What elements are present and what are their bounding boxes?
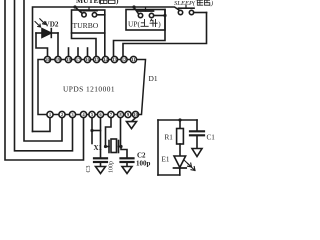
svg-text:100p: 100p — [136, 160, 151, 168]
capacitor C3 — [94, 158, 107, 166]
photodiode VD2 — [35, 19, 58, 38]
pin 16 — [84, 56, 90, 62]
label SLEEP(睡眠) — [174, 0, 213, 7]
svg-text:11: 11 — [131, 57, 136, 62]
svg-text:100p: 100p — [109, 161, 115, 173]
label UP(上升) — [128, 19, 161, 28]
pin 12 — [121, 56, 127, 62]
svg-text:14: 14 — [103, 57, 108, 62]
pin 5 — [89, 111, 95, 117]
wire: output box bottom edge — [158, 174, 180, 176]
svg-text:SLEEP(: SLEEP( — [174, 0, 196, 7]
wire: pin5 branch to C3 column — [92, 130, 101, 132]
resistor R1 — [177, 120, 184, 156]
svg-text:UPDS 1210001: UPDS 1210001 — [63, 85, 115, 94]
ground under C2 — [122, 167, 132, 174]
pin 8 — [117, 111, 123, 117]
wire: left bus line 2 (pin 3 net) — [15, 0, 73, 151]
pin 2 — [59, 111, 65, 117]
pin 9 — [125, 111, 131, 117]
svg-text:C3: C3 — [86, 165, 92, 172]
svg-text:MUTE(: MUTE( — [76, 0, 102, 5]
svg-text:C1: C1 — [207, 134, 216, 142]
svg-text:UP(: UP( — [128, 20, 140, 29]
node: junction dot UP tap — [132, 5, 135, 8]
node: dot crystal right — [119, 145, 122, 148]
svg-text:20: 20 — [45, 57, 50, 62]
pin 10 — [132, 111, 138, 117]
wire: pin 16 stub — [87, 48, 89, 56]
wire: UP button to pin 13 — [114, 10, 166, 57]
svg-text:C2: C2 — [137, 152, 146, 160]
wire: SLEEP button to pin 12 — [123, 13, 207, 57]
wire: VD2 cathode to pin 19 — [57, 33, 59, 56]
wire: left bus line 1 (pin 4 net) — [5, 0, 84, 160]
wire: pin 8 drop to crystal right — [120, 118, 122, 147]
pin 19 — [55, 56, 61, 62]
pin 4 — [80, 111, 86, 117]
wire: left bus line 4 / top common rail (pin 1 net) — [33, 7, 181, 131]
svg-text:16: 16 — [85, 57, 90, 62]
pin 13 — [111, 56, 117, 62]
node: junction dot TURBO tap — [73, 5, 76, 8]
wire: pin 17 stub — [77, 48, 79, 56]
ground at pin 10 — [127, 122, 137, 129]
pin 15 — [93, 56, 99, 62]
svg-text:TURBO: TURBO — [73, 21, 99, 30]
pushbutton S3 SLEEP — [178, 5, 206, 14]
pushbutton S2 UP — [126, 7, 165, 30]
svg-text:15: 15 — [94, 57, 99, 62]
pin 3 — [69, 111, 75, 117]
wire: pin 18 stub — [68, 48, 70, 56]
crystal X1 — [106, 139, 122, 153]
node: junction dot pin5 branch — [90, 129, 93, 132]
svg-text:): ) — [210, 0, 213, 7]
ground under C3 — [96, 167, 106, 174]
svg-text:X1: X1 — [94, 144, 103, 152]
wire: pin 10 to ground — [132, 118, 136, 122]
pin 7 — [108, 111, 114, 117]
svg-text:10: 10 — [133, 112, 138, 117]
pin 11 — [130, 56, 136, 62]
wire: TURBO box right edge down to pin 14 — [104, 33, 106, 56]
wire: pin 6 drop to C3 — [100, 118, 102, 158]
node: dot R1 top — [178, 118, 181, 121]
wire: output box top edge — [158, 119, 197, 121]
svg-text:19: 19 — [56, 57, 61, 62]
wire: output box left edge — [157, 120, 159, 175]
ground under C1 — [192, 149, 202, 157]
IC D1 UPDS1210001 — [38, 60, 146, 115]
svg-text:D1: D1 — [149, 74, 158, 83]
svg-text:17: 17 — [76, 57, 81, 62]
svg-text:13: 13 — [112, 57, 117, 62]
svg-text:VD2: VD2 — [45, 21, 59, 29]
pin 18 — [65, 56, 71, 62]
pin 6 — [97, 111, 103, 117]
capacitor C2 — [121, 158, 134, 166]
svg-text:E1: E1 — [162, 156, 170, 164]
pin 20 — [44, 56, 50, 62]
node: junction dot UP right — [163, 14, 166, 17]
svg-text:18: 18 — [66, 57, 71, 62]
pin 17 — [75, 56, 81, 62]
capacitor C1 — [190, 120, 204, 149]
svg-text:12: 12 — [122, 57, 127, 62]
wire: VD2 anode to pin 20 — [36, 33, 48, 56]
LED E1 — [174, 156, 196, 175]
pin 14 — [102, 56, 108, 62]
wire: pin 7 to crystal left — [106, 118, 112, 147]
wire: TURBO box left edge to pin 15 — [72, 33, 97, 56]
pushbutton S1 TURBO — [72, 7, 105, 33]
pin 1 — [47, 111, 53, 117]
wire: left bus line 3 (pin 2 net) — [24, 0, 62, 141]
wire: pin 5 drop — [91, 118, 93, 144]
node: dot crystal left — [104, 145, 107, 148]
label clipped top caption — [76, 0, 119, 5]
wire: crystal right to C2 — [121, 147, 127, 158]
svg-text:R1: R1 — [165, 134, 174, 142]
